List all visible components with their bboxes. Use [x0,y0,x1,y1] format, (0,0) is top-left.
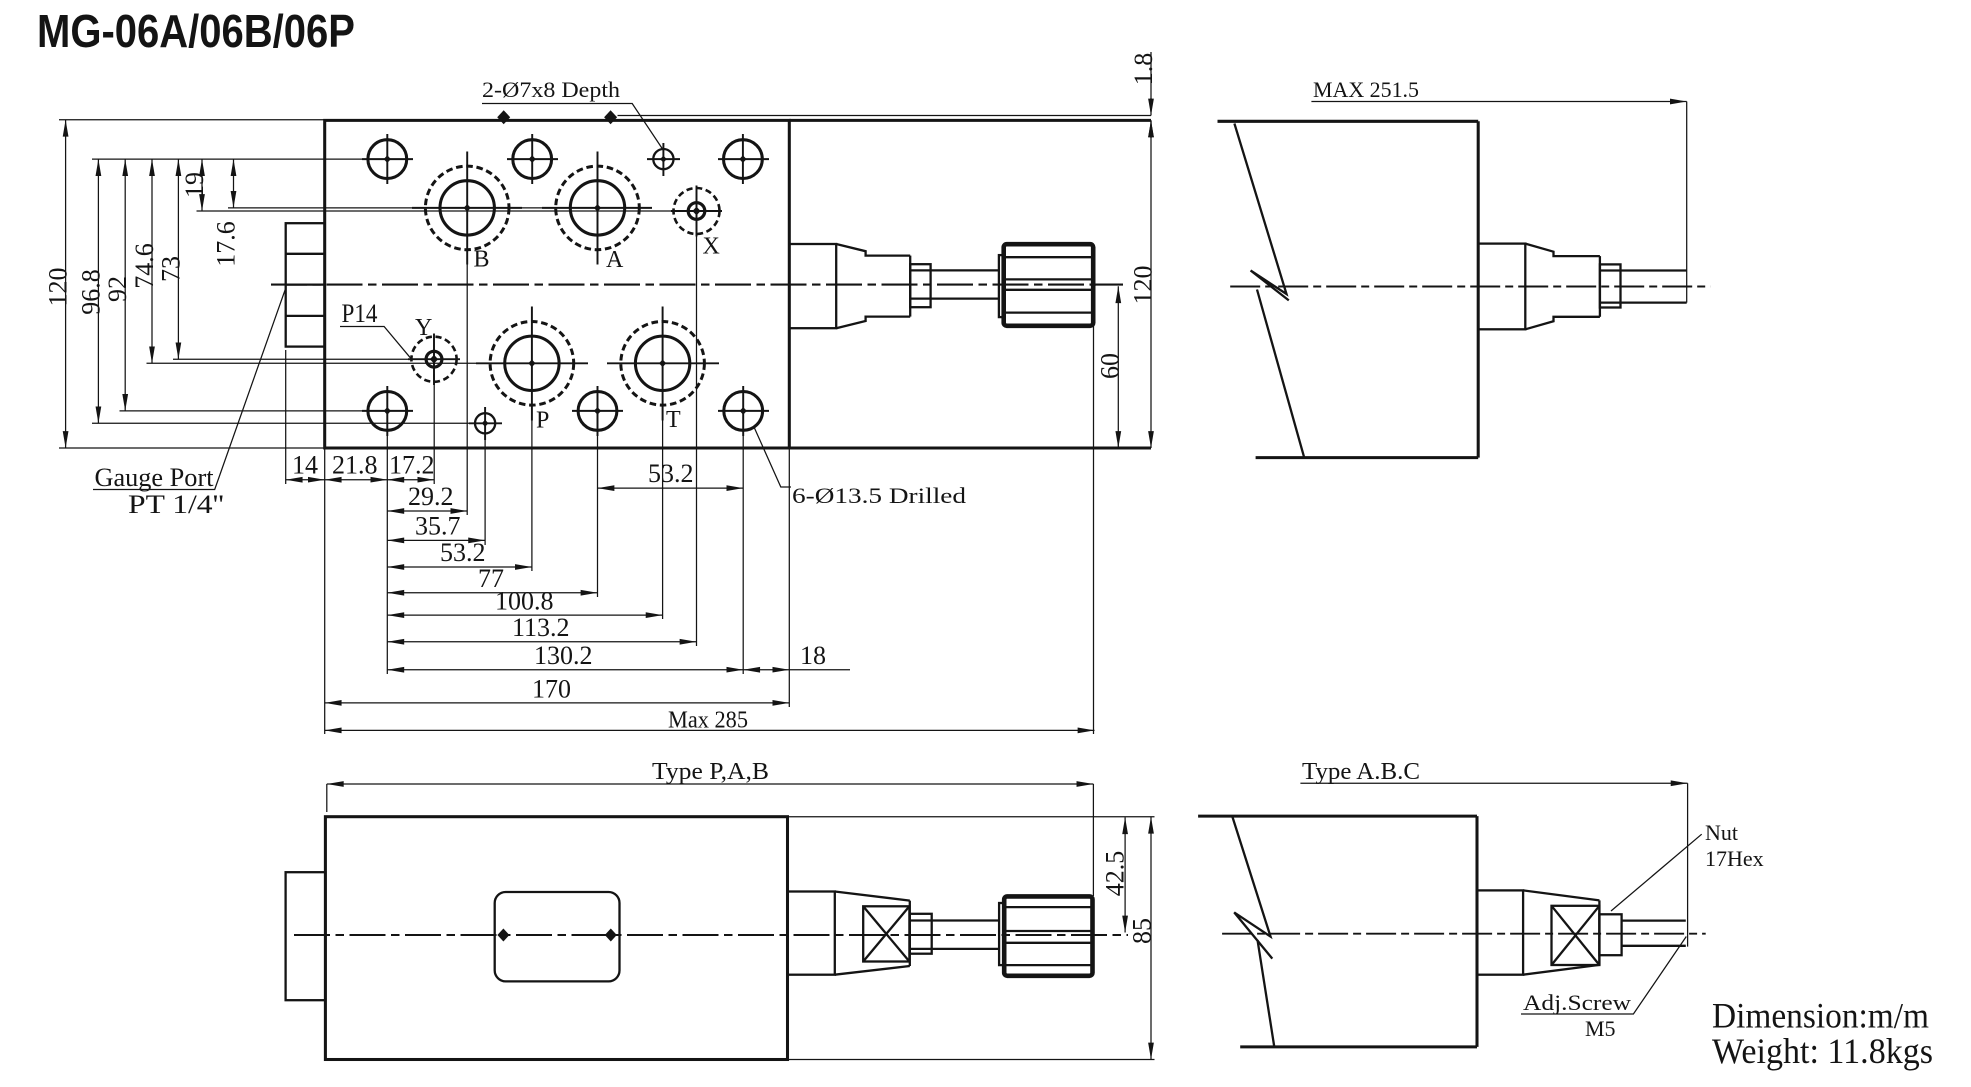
front knob knurl line 4 [1006,964,1092,966]
port A solid circle [570,181,624,235]
extension boss left column [285,350,287,484]
gauge port boss inner line 3 [286,315,325,317]
dimension 96.8 [97,159,99,423]
dimension 17.6 [233,159,235,208]
note underline and leader to hole [482,104,663,151]
front view body rectangle [325,817,787,1060]
extension body right column [788,448,790,707]
locknut rectangle side [1600,264,1621,307]
svg-text:53.2: 53.2 [648,459,694,488]
dimension 53.2 right [598,487,744,489]
extension A column [597,430,599,597]
main centerline [271,284,1096,286]
svg-text:120: 120 [1129,266,1158,305]
Type PAB extension right [1092,784,1094,896]
abc taper top [1523,890,1599,900]
extension T column [662,404,664,619]
handknob knurl line 2 [1005,278,1092,280]
pattern diamond left [497,929,509,942]
front relief taper right edge [909,901,911,966]
knob flange [999,255,1004,317]
mounting hole top-middle [507,134,558,184]
abc rod bottom line [1622,945,1686,947]
mounting hole top-right [718,134,769,184]
abc X-box diagonal 1 [1552,906,1600,965]
abc taper bottom [1523,965,1599,975]
locating hole 7mm bottom [469,407,502,440]
svg-text:2-Ø7x8 Depth: 2-Ø7x8 Depth [482,77,620,102]
side view right edge [1477,121,1480,457]
svg-text:170: 170 [532,674,571,703]
subplate surface line 1.8 above [618,115,1152,117]
drilled leader from bottom-right hole [754,427,791,487]
svg-text:17.6: 17.6 [211,221,240,267]
svg-text:42.5: 42.5 [1101,851,1130,897]
locknut rectangle [910,264,930,307]
envelope top edge extension [789,119,1151,122]
screw rod top line [1600,269,1687,271]
svg-text:92: 92 [103,276,132,302]
dimension 120 right [1150,120,1152,448]
handknob outline [1004,244,1093,326]
section diamond 1 on top edge [497,110,510,124]
extension line top edge left [59,119,325,121]
port T solid circle [635,336,689,390]
port P dashed circle [490,322,574,406]
X-box diagonal 1 [863,906,909,961]
handknob knurl line 4 [1005,311,1092,313]
abc locknut rectangle [1599,914,1621,955]
extension hole column 1 [386,420,388,674]
extension B column [466,248,468,515]
locating hole 7mm top [647,143,680,176]
front knob knurl line 3 [1006,942,1092,944]
extension line port X row [197,210,721,212]
mounting hole top-left [362,134,413,184]
svg-text:29.2: 29.2 [408,482,454,511]
dimension 35.7 [387,539,485,541]
dimension 74.6 [151,159,153,363]
front view centerline [294,934,1128,936]
relief valve stage1 rectangle [789,244,836,328]
svg-text:60: 60 [1096,353,1125,379]
extension right hole column [742,430,744,674]
front handknob outline [1004,896,1092,975]
svg-text:T: T [666,407,681,433]
dimension 18 [743,669,789,671]
svg-text:14: 14 [292,451,318,480]
gauge port underline and leader to boss [93,289,285,489]
abc view bottom edge [1240,1045,1477,1048]
MAX extension vertical [1686,102,1688,303]
port Y dashed circle [411,337,456,382]
mounting hole bottom-middle [572,386,623,436]
svg-text:85: 85 [1128,918,1157,944]
X-box diagonal 2 [863,906,909,961]
dimension 60 [1117,286,1119,448]
mounting hole bottom-right [718,386,769,436]
side view bottom edge [1256,456,1479,459]
dimension 29.2 [387,510,467,512]
svg-text:P14: P14 [342,299,378,328]
dimension MAX 251.5 line [1311,101,1686,103]
bottom edge extension right [788,1059,1155,1061]
relief cone taper bottom [1525,317,1600,330]
svg-text:18: 18 [800,641,826,670]
svg-text:Gauge Port: Gauge Port [95,463,215,492]
svg-text:MG-06A/06B/06P: MG-06A/06B/06P [37,5,355,57]
dimension Type ABC line [1300,782,1687,784]
svg-text:Type P,A,B: Type P,A,B [652,759,769,785]
dimension 1.8 arrows [1150,98,1152,116]
abc view right edge [1475,816,1478,1047]
port X dashed circle [674,188,720,234]
top edge extension right [788,816,1155,818]
Type ABC extension vertical [1687,783,1689,946]
abc relief stage1 rectangle [1477,890,1523,974]
nut leader [1611,834,1702,911]
svg-text:73: 73 [156,256,185,282]
dimension 18 tail [789,669,850,671]
dimension 92 [124,159,126,411]
abc view top edge [1198,815,1477,818]
svg-text:Adj.Screw: Adj.Screw [1523,990,1631,1015]
abc break line upper with lightning [1232,816,1272,959]
dimension 21.8 [325,479,388,481]
port P crosshair [476,307,588,421]
break line upper with lightning [1234,124,1288,301]
extension line bottom hole row [120,410,413,412]
P14 underline and leader to port Y [340,327,412,360]
abc taper right edge [1598,900,1600,965]
dimension 120 left [65,120,67,448]
svg-text:35.7: 35.7 [415,512,461,541]
svg-text:6-Ø13.5 Drilled: 6-Ø13.5 Drilled [792,483,966,508]
cone right edge [1599,256,1601,317]
svg-text:120: 120 [44,268,73,307]
relief valve taper bottom [836,317,910,329]
front rod top line [910,919,999,921]
port B crosshair [412,152,522,265]
front relief taper bottom [835,966,910,975]
adjust screw rod top line [910,269,999,271]
svg-text:M5: M5 [1585,1016,1616,1041]
gauge port boss [286,223,325,346]
adjustment X-box square [863,906,909,961]
svg-text:X: X [703,234,720,260]
dimension Type PAB line [327,783,1094,785]
front rod bottom line [910,948,999,950]
front relief taper top [835,892,910,901]
relief valve taper top [836,244,910,256]
dimension Max 285 [325,729,1095,731]
svg-text:96.8: 96.8 [76,269,105,315]
front knob knurl line 2 [1006,930,1092,932]
port Y solid circle [426,351,442,367]
svg-text:P: P [536,408,549,434]
break line lower [1257,290,1304,458]
pattern diamond right [605,929,617,942]
dimension 1.8 vertical line and 120 right line [1150,52,1152,112]
svg-text:MAX 251.5: MAX 251.5 [1313,77,1419,102]
dimension 77 [387,592,597,594]
mounting hole bottom-left [362,386,413,436]
abc centerline [1222,933,1706,935]
svg-text:130.2: 130.2 [534,641,593,670]
svg-text:17.2: 17.2 [389,451,435,480]
dimension 42.5 line [1124,817,1126,932]
screw rod bottom line [1600,301,1687,303]
svg-text:1.8: 1.8 [1129,53,1158,86]
svg-text:Weight: 11.8kgs: Weight: 11.8kgs [1712,1031,1933,1071]
dimension 17.2 [387,479,434,481]
section diamond 2 on top edge [604,110,617,124]
extension line bottom 7mm row [92,422,471,424]
valve body outline (top view) [325,120,790,448]
svg-text:PT 1/4'': PT 1/4'' [128,490,224,519]
front relief stage1 rectangle [788,892,835,975]
dimension 113.2 [387,641,696,643]
cylinder right edge [909,256,911,317]
extension line port BA row [228,207,650,209]
relief cone rectangle [1478,244,1525,330]
port B dashed circle [425,166,509,250]
extension Y column [433,374,435,484]
port A dashed circle [556,166,640,250]
port T dashed circle [621,322,705,406]
svg-text:Max 285: Max 285 [668,708,748,734]
svg-text:Y: Y [415,315,432,341]
svg-text:21.8: 21.8 [332,451,378,480]
adj screw underline and leader [1521,937,1686,1015]
svg-text:Type A.B.C: Type A.B.C [1302,759,1420,785]
svg-text:Dimension:m/m: Dimension:m/m [1712,996,1929,1036]
dimension 73 [177,159,179,359]
extension P column [531,404,533,571]
front view gauge boss [286,872,326,1000]
extension line bottom edge left [59,447,325,449]
front locknut rectangle [910,914,932,954]
extension line top hole row [92,158,387,160]
front knob knurl line 1 [1006,906,1092,908]
Type PAB extension left [326,784,328,812]
extension body left column [324,448,326,734]
dimension 130.2 [387,669,743,671]
centerline last dash [1090,284,1123,286]
port T crosshair [607,307,719,421]
dimension 53.2 [387,566,532,568]
port X solid circle [688,203,705,220]
handknob knurl line 3 [1005,289,1092,291]
extension knob right column [1093,326,1095,734]
dimension 14 [286,479,325,481]
dimension 19 [201,159,203,211]
svg-text:19: 19 [180,172,209,198]
port Y crosshair [408,334,460,386]
envelope bottom edge extension [789,446,1151,449]
abc X-box square [1552,906,1600,965]
side view top edge [1218,120,1479,123]
svg-text:74.6: 74.6 [130,243,159,289]
port P solid circle [505,336,559,390]
dimension 100.8 [387,614,662,616]
svg-text:B: B [474,247,490,273]
svg-text:113.2: 113.2 [512,613,570,642]
port B solid circle [440,181,494,235]
port A crosshair [542,152,652,265]
gauge port boss inner line 2 [286,283,325,285]
side view centerline [1230,286,1710,288]
abc rod top line [1622,919,1686,921]
front knob flange [999,903,1004,965]
relief cone taper top [1525,244,1600,257]
svg-text:Nut: Nut [1705,820,1738,845]
svg-text:100.8: 100.8 [495,587,554,616]
extension line port PT row [147,362,589,364]
abc break line lower [1258,940,1275,1047]
abc X-box diagonal 2 [1552,906,1600,965]
extension 7mm bottom column [484,430,486,545]
port X crosshair [671,186,722,237]
adjust screw rod bottom line [910,297,999,299]
svg-text:A: A [606,247,624,273]
handknob knurl line 1 [1005,256,1092,258]
gauge port boss inner line 1 [286,253,325,255]
mounting pattern rounded rectangle [495,892,620,981]
dimension 85 line [1150,817,1152,1060]
svg-text:53.2: 53.2 [440,538,486,567]
extension line port Y row [173,358,459,360]
dimension 170 [325,702,790,704]
svg-text:17Hex: 17Hex [1705,846,1764,871]
extension X column [696,234,698,646]
